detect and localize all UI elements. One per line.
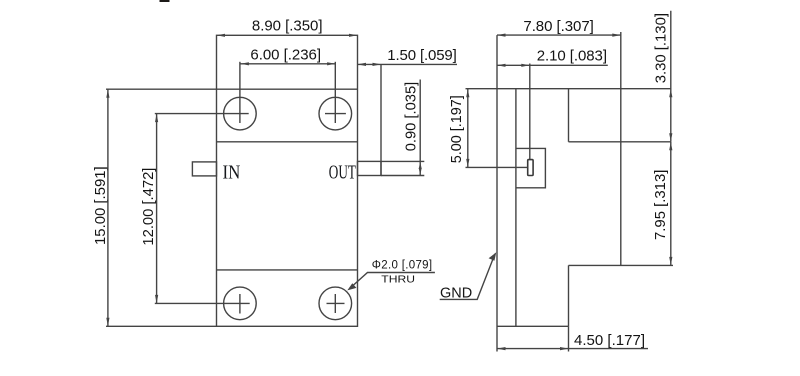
dimension 3.30 line with arrows	[669, 11, 672, 142]
svg-text:7.80 [.307]: 7.80 [.307]	[523, 18, 593, 35]
pin center line	[529, 64, 531, 160]
dimension 7.80 [.307] text	[523, 18, 593, 35]
dimension 15.00 line with arrows	[106, 89, 109, 326]
hole top-left	[224, 97, 257, 130]
extension line 0.90 top (tab top)	[381, 160, 424, 162]
centerline cross bottom-left hole vertical	[239, 294, 241, 314]
upper step vertical	[568, 89, 570, 142]
step edge at 3.30 (extended right)	[569, 141, 671, 143]
divider line lower flange top	[217, 269, 358, 271]
dimension 3.30 [.130] rotated text	[653, 13, 670, 83]
label IN	[223, 161, 241, 183]
dimension 0.90 [.035] rotated text	[402, 82, 419, 152]
svg-text:4.50 [.177]: 4.50 [.177]	[574, 332, 645, 349]
dimension 7.95 [.313] rotated text	[652, 170, 669, 240]
lower step vertical	[568, 265, 570, 326]
extension line 1.50 right (tab end)	[380, 64, 382, 176]
dimension 4.50 [.177] text	[574, 332, 645, 349]
svg-text:Φ2.0 [.079]: Φ2.0 [.079]	[372, 260, 432, 272]
dimension 4.50 line with arrows and leader	[497, 347, 648, 350]
dimension 6.00 [.236] text	[250, 46, 321, 63]
extension line 15.00 top	[106, 88, 217, 90]
divider line upper flange bottom	[217, 141, 358, 143]
hole callout text THRU	[381, 273, 415, 285]
GND leader with arrow	[440, 252, 497, 299]
pin housing rectangle	[516, 148, 546, 187]
extension line 12.00 bottom / bottom-left hole horizontal centerline	[155, 302, 250, 304]
body outline	[217, 35, 358, 326]
svg-text:3.30 [.130]: 3.30 [.130]	[653, 13, 670, 83]
dimension 1.50 [.059] text	[387, 47, 457, 64]
svg-text:12.00 [.472]: 12.00 [.472]	[140, 168, 157, 246]
dimension 15.00 [.591] rotated text	[92, 166, 109, 245]
extension line 6.00 left / top-left hole vertical centerline	[239, 62, 241, 123]
body right edge (with 7.80 extension above)	[620, 32, 622, 265]
extension line 6.00 right / top-right hole vertical centerline	[334, 62, 336, 123]
hole bottom-right	[319, 287, 352, 320]
OUT pin tab	[358, 161, 382, 175]
svg-text:15.00 [.591]: 15.00 [.591]	[92, 166, 109, 245]
dimension 5.00 line with arrows	[466, 89, 469, 168]
centerline cross top-right hole horizontal	[325, 113, 346, 115]
top edge cropped text smudge	[160, 0, 170, 2]
dimension 8.90 [.350] text	[252, 17, 323, 34]
hole bottom-left	[224, 287, 257, 320]
body left edge (with extension overshoots)	[496, 35, 498, 351]
dimension 5.00 [.197] rotated text	[448, 95, 465, 163]
lower step edge (extended right)	[569, 264, 674, 266]
divider line top cap	[217, 88, 358, 90]
centerline cross bottom-right hole vertical	[334, 294, 336, 313]
dimension 8.90 arrows on top edge	[217, 34, 358, 37]
dimension 1.50 line with arrows and leader	[358, 63, 458, 66]
dimension 0.90 line with arrows	[419, 80, 422, 176]
centerline cross bottom-right hole horizontal	[327, 302, 345, 304]
svg-text:8.90 [.350]: 8.90 [.350]	[252, 17, 323, 34]
svg-text:IN: IN	[223, 161, 241, 183]
svg-text:0.90 [.035]: 0.90 [.035]	[402, 82, 419, 152]
extension line 0.90 bottom (tab bottom)	[381, 175, 424, 177]
extension line 5.00 bottom (to pin slot)	[466, 166, 528, 168]
dimension 2.10 [.083] text	[537, 48, 607, 65]
svg-text:6.00 [.236]: 6.00 [.236]	[250, 46, 321, 63]
hole top-right	[319, 97, 352, 130]
label GND	[440, 284, 472, 301]
extension line 5.00 top	[466, 88, 498, 90]
svg-text:THRU: THRU	[381, 273, 415, 285]
extension line 15.00 bottom	[106, 325, 217, 327]
svg-text:5.00 [.197]: 5.00 [.197]	[448, 95, 465, 163]
body top edge (extended right as 3.30 extension)	[497, 88, 671, 90]
IN pin tab	[192, 162, 216, 176]
svg-text:OUT: OUT	[329, 162, 356, 184]
hole callout leader	[347, 273, 435, 291]
label OUT	[329, 162, 356, 184]
extension line 12.00 top / top-left hole horizontal centerline	[155, 113, 249, 115]
pin contact slot	[528, 160, 533, 176]
dimension 7.95 line with arrows	[669, 142, 672, 266]
inner vertical line (flange thickness)	[515, 89, 517, 327]
dimension 6.00 line with arrows	[240, 62, 335, 65]
svg-text:1.50 [.059]: 1.50 [.059]	[387, 47, 457, 64]
body bottom edge	[497, 325, 569, 327]
dimension 12.00 [.472] rotated text	[140, 168, 157, 246]
svg-text:7.95 [.313]: 7.95 [.313]	[652, 170, 669, 240]
hole callout text PHI 2.0 [.079]	[372, 260, 432, 272]
extension 4.50 right	[568, 326, 570, 351]
dimension 12.00 line with arrows	[155, 114, 158, 304]
svg-text:2.10 [.083]: 2.10 [.083]	[537, 48, 607, 65]
dimension 2.10 line with arrows and leader	[497, 64, 608, 67]
dimension 7.80 line with arrows	[497, 34, 621, 37]
